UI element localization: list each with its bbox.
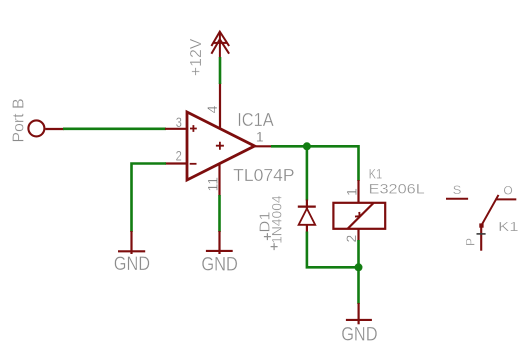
- wire diode to junction B: [307, 232, 359, 268]
- noninverting input + mark: [190, 125, 197, 132]
- contact P pin: [480, 228, 482, 251]
- wire junction A to diode D1: [306, 146, 309, 200]
- junction node B: [355, 263, 363, 271]
- svg-text:1N4004: 1N4004: [270, 195, 285, 244]
- pin 2: [165, 162, 187, 164]
- origin cross of D1 label: [264, 233, 271, 240]
- svg-text:+12V: +12V: [188, 38, 205, 76]
- svg-text:IC1A: IC1A: [237, 110, 274, 130]
- relay coil pin 1: [357, 180, 359, 203]
- svg-text:1: 1: [256, 129, 264, 145]
- ground GND1: [114, 231, 150, 275]
- contact mover square: [479, 223, 483, 227]
- wire pin 11 to GND2: [218, 195, 221, 232]
- svg-text:TL074P: TL074P: [233, 165, 295, 185]
- contact origin cross: [477, 233, 486, 235]
- svg-text:GND: GND: [201, 253, 238, 275]
- svg-text:2: 2: [176, 148, 182, 164]
- svg-text:3: 3: [176, 114, 182, 130]
- supply symbol +12V: [211, 32, 229, 58]
- svg-text:E3206L: E3206L: [369, 182, 426, 197]
- wire relay pin 2 to junction B: [357, 240, 360, 267]
- svg-text:P: P: [463, 238, 477, 246]
- wire pin 1 to relay coil: [271, 146, 359, 181]
- relay contact S throw line: [446, 198, 468, 200]
- svg-text:K1: K1: [369, 166, 383, 181]
- wire +12V to pin 4: [219, 57, 222, 84]
- svg-text:1: 1: [344, 188, 360, 196]
- op-amp IC1A body: [187, 112, 255, 180]
- wire net Port B to pin 3: [63, 128, 166, 131]
- svg-text:GND: GND: [114, 253, 150, 275]
- pin 11: [218, 164, 220, 197]
- junction node A: [303, 142, 311, 150]
- wire pin 2 to GND1: [132, 164, 167, 233]
- contact mover arm: [482, 196, 498, 225]
- ground GND3: [341, 303, 377, 346]
- svg-text:GND: GND: [341, 324, 377, 346]
- origin cross of 1N4004 label: [271, 243, 278, 250]
- svg-text:O: O: [503, 183, 512, 197]
- relay coil K1: [333, 203, 385, 229]
- svg-text:K1: K1: [498, 219, 518, 234]
- port pin stub: [45, 128, 64, 130]
- svg-text:Port B: Port B: [10, 98, 27, 142]
- inverting input - mark: [190, 163, 197, 165]
- pin 3: [165, 128, 187, 130]
- port pad Port B: [28, 120, 44, 136]
- svg-text:4: 4: [204, 105, 220, 113]
- ground GND2: [201, 231, 238, 275]
- wire junction B to GND3: [357, 267, 360, 304]
- svg-text:11: 11: [205, 177, 221, 192]
- svg-text:2: 2: [343, 235, 359, 243]
- diode D1: [298, 200, 316, 233]
- pin 1: [255, 145, 273, 147]
- relay contact O throw line: [495, 198, 516, 200]
- svg-text:S: S: [453, 183, 462, 197]
- op-amp center + mark: [216, 142, 224, 150]
- pin 4: [219, 83, 221, 129]
- relay coil pin 2: [357, 228, 359, 241]
